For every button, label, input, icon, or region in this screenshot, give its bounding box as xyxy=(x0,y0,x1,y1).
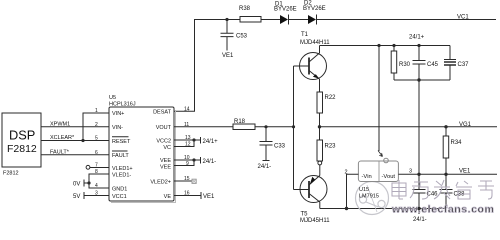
svg-text:VCC1: VCC1 xyxy=(112,194,127,200)
node junction regulator input xyxy=(345,207,348,210)
op-amp U5 HCPL316J gate driver IC xyxy=(109,95,176,203)
svg-text:VC1: VC1 xyxy=(457,15,469,21)
svg-text:FAULT: FAULT xyxy=(112,153,129,159)
svg-text:24/1-: 24/1- xyxy=(203,159,217,165)
svg-text:VE: VE xyxy=(164,194,172,200)
resistor R38 xyxy=(239,6,261,22)
svg-text:24/1+: 24/1+ xyxy=(203,139,219,145)
svg-text:DESAT: DESAT xyxy=(153,110,172,116)
svg-text:DSP: DSP xyxy=(9,128,35,143)
wire bottom 24/1- rail xyxy=(320,208,446,210)
resistor R30 xyxy=(391,46,410,81)
wire VG1 gate rail xyxy=(320,126,498,128)
svg-text:VG1: VG1 xyxy=(459,122,472,128)
watermark elecfans xyxy=(391,180,494,216)
svg-text:3: 3 xyxy=(409,168,412,174)
svg-text:VCC2: VCC2 xyxy=(156,138,171,144)
wire regulator pin2 to 24/1- rail xyxy=(345,170,359,209)
svg-text:VEE: VEE xyxy=(160,164,171,170)
node junction riser tap xyxy=(377,44,380,47)
svg-text:VE1: VE1 xyxy=(459,168,471,174)
wire D1 cathode to D2 anode xyxy=(289,19,308,21)
svg-text:14: 14 xyxy=(184,106,190,112)
svg-text:5V: 5V xyxy=(73,194,80,200)
capacitor C45 xyxy=(413,46,439,81)
svg-text:VIN+: VIN+ xyxy=(112,111,124,117)
svg-text:8: 8 xyxy=(95,169,98,175)
capacitor C38 xyxy=(440,174,466,208)
wire U5 pin1 jog to XCLEAR net xyxy=(83,113,109,141)
node junction C45 top xyxy=(417,44,420,47)
svg-text:VC: VC xyxy=(163,145,171,151)
svg-text:6: 6 xyxy=(95,150,98,156)
diode D2 BYV26E xyxy=(303,1,326,25)
resistor R22 xyxy=(317,92,336,113)
resistor R34 xyxy=(443,127,462,175)
svg-text:C33: C33 xyxy=(274,144,286,150)
svg-text:F2812: F2812 xyxy=(3,171,19,177)
svg-text:XPWM1: XPWM1 xyxy=(50,122,70,128)
svg-text:T1: T1 xyxy=(301,32,309,38)
node junction pin1-XCLEAR xyxy=(81,139,84,142)
node junction mid rail xyxy=(417,78,420,81)
svg-text:R22: R22 xyxy=(325,95,337,101)
node junction R30 top xyxy=(392,44,395,47)
wire vertical 24 rail to regulator top xyxy=(378,46,380,152)
pin numbers U5 left xyxy=(95,108,98,197)
svg-text:24/1-: 24/1- xyxy=(258,164,272,170)
wire VOUT pin11 to R18 xyxy=(174,126,233,128)
svg-text:C53: C53 xyxy=(236,34,248,40)
wire U5 pin16 to VE1 xyxy=(174,192,215,200)
svg-text:24/1+: 24/1+ xyxy=(409,35,425,41)
svg-text:RESET: RESET xyxy=(112,139,131,145)
node 0V tap xyxy=(73,180,91,188)
svg-text:5: 5 xyxy=(95,136,98,142)
wire regulator pin3 out VE1 rail xyxy=(398,168,497,174)
svg-text:R18: R18 xyxy=(234,119,246,125)
diode D1 BYV26E xyxy=(274,2,297,25)
svg-text:1: 1 xyxy=(95,108,98,114)
node junction VE1-C46 xyxy=(417,173,420,176)
node junction bottom C46 xyxy=(417,207,420,210)
svg-text:VLED1+: VLED1+ xyxy=(112,166,133,172)
node junction R34 top xyxy=(444,125,447,128)
svg-text:LM7915: LM7915 xyxy=(359,194,379,200)
resistor R23 xyxy=(317,140,336,161)
wire top net right of R38 to D1 xyxy=(261,19,280,21)
node junction base tie xyxy=(292,125,295,128)
svg-text:0V: 0V xyxy=(73,182,80,188)
resistor R18 xyxy=(233,119,255,130)
svg-text:3: 3 xyxy=(95,191,98,197)
pin numbers U5 right xyxy=(184,106,191,196)
svg-text:VLED2+: VLED2+ xyxy=(150,179,171,185)
svg-text:24/1-: 24/1- xyxy=(413,217,427,223)
wire XCLEAR* DSP to U5 pin5 xyxy=(41,135,109,141)
svg-text:U15: U15 xyxy=(359,187,369,193)
wire U5 pin3 5V xyxy=(73,192,109,200)
DSP U-DSP F2812 box xyxy=(2,113,41,177)
svg-text:BYV26E: BYV26E xyxy=(303,6,326,12)
ghost package TO-3 outline xyxy=(356,182,389,215)
svg-text:R23: R23 xyxy=(325,144,337,150)
svg-text:VOUT: VOUT xyxy=(156,125,172,131)
wire R23 to T5 emitter with bead xyxy=(318,161,322,175)
svg-text:XCLEAR*: XCLEAR* xyxy=(50,135,75,141)
wire D2 cathode to VC1 xyxy=(317,19,496,21)
svg-text:HCPL316J: HCPL316J xyxy=(109,102,136,108)
wire XPWM1 DSP to U5 pin2 xyxy=(41,122,109,128)
svg-text:C37: C37 xyxy=(458,62,470,68)
capacitor C37 xyxy=(444,46,469,81)
svg-text:GND1: GND1 xyxy=(112,186,127,192)
svg-text:R30: R30 xyxy=(399,62,411,68)
node gate junction xyxy=(318,125,321,128)
svg-text:MJD45H11: MJD45H11 xyxy=(300,218,330,224)
capacitor C46 xyxy=(413,174,439,208)
node junction dot C53 tap xyxy=(225,18,228,21)
svg-text:2: 2 xyxy=(345,170,348,176)
wire vertical C45 rail down to VE1 and 24/1- xyxy=(418,80,420,189)
svg-text:VE1: VE1 xyxy=(203,194,215,200)
svg-text:BYV26E: BYV26E xyxy=(274,7,297,13)
wire DESAT net: pin14 stub, vertical riser, top horizontal to VC1 xyxy=(174,20,240,112)
transistor T5 MJD45H11 xyxy=(294,176,331,225)
svg-text:R34: R34 xyxy=(451,140,463,146)
node junction VE1-R34-C38 xyxy=(444,173,447,176)
svg-text:VEE: VEE xyxy=(160,158,171,164)
capacitor C33 xyxy=(260,127,286,161)
svg-text:www.elecfans.com: www.elecfans.com xyxy=(391,204,494,216)
svg-text:4: 4 xyxy=(95,183,98,189)
svg-text:VLED1-: VLED1- xyxy=(112,172,131,178)
svg-text:F2812: F2812 xyxy=(7,143,37,155)
wire mid rail under R30 C45 C37 xyxy=(394,79,450,81)
wire U5 pins 10/9 tie to 24/1- xyxy=(174,157,216,166)
svg-text:FAULT*: FAULT* xyxy=(50,149,70,155)
svg-text:2: 2 xyxy=(95,122,98,128)
wire FAULT* DSP to U5 pin6 xyxy=(41,149,109,155)
svg-text:VE1: VE1 xyxy=(222,53,234,59)
capacitor C53 xyxy=(221,20,248,51)
svg-text:R38: R38 xyxy=(239,6,251,12)
wire base vertical T1-T5 xyxy=(293,66,295,190)
wire top 24/1+ rail from T1 collector xyxy=(320,45,451,47)
wire R18 to base rail xyxy=(255,126,294,128)
svg-text:U5: U5 xyxy=(109,95,116,101)
svg-text:T5: T5 xyxy=(301,212,309,218)
node junction C33 tap xyxy=(264,125,267,128)
wire U5 pins 13/12 tie to 24/1+ xyxy=(174,137,218,147)
wire U5 pin15 stub with port box xyxy=(174,179,196,183)
wire R22 to gate node xyxy=(319,113,321,140)
svg-text:7: 7 xyxy=(95,163,98,169)
wire U5 pin7 stub with open circle xyxy=(86,165,109,169)
wire U5 pin8 tie to pin4 xyxy=(89,174,109,188)
svg-text:-Vout: -Vout xyxy=(382,174,396,180)
svg-text:VIN-: VIN- xyxy=(112,125,123,131)
wire 24/1- stub xyxy=(418,209,420,215)
transistor T1 MJD44H11 xyxy=(294,32,331,92)
regulator U15 -Vin -Vout box xyxy=(358,158,398,181)
svg-text:C45: C45 xyxy=(427,62,439,68)
wire arrow into regulator pin1 xyxy=(378,151,383,157)
svg-text:-Vin: -Vin xyxy=(362,174,372,180)
